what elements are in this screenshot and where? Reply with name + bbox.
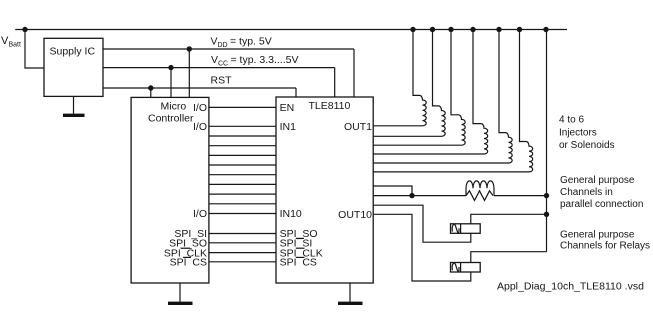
svg-text:Batt: Batt — [9, 42, 22, 49]
svg-text:SPI CS: SPI CS — [280, 257, 317, 269]
wire relay2 to battery — [471, 252, 547, 263]
svg-text:= typ. 3.3....5V: = typ. 3.3....5V — [231, 54, 299, 66]
svg-text:Micro: Micro — [161, 100, 187, 112]
note parallel channels — [560, 175, 643, 210]
junction rail tap 2 — [430, 27, 435, 32]
svg-text:General purpose: General purpose — [560, 229, 635, 240]
wire IN5 net — [209, 164, 276, 166]
junction rail tap 3 — [448, 27, 453, 32]
wire SPI_CS net — [209, 261, 276, 263]
wire SPI_SI net — [209, 233, 276, 235]
relay K2 coil — [451, 263, 481, 273]
TLE8110 U2 box — [276, 97, 373, 283]
wire supply ground lead — [73, 96, 75, 113]
wire IN8 net — [209, 193, 276, 195]
svg-text:OUT10: OUT10 — [338, 209, 372, 221]
junction relay1 battery — [544, 212, 549, 217]
wire VCC to micro top — [170, 68, 172, 98]
inductor L3 injector — [373, 30, 465, 146]
svg-text:I/O: I/O — [193, 208, 207, 220]
svg-text:Controller: Controller — [148, 113, 194, 125]
svg-text:CC: CC — [218, 61, 228, 68]
supply IC U1 box — [44, 38, 103, 96]
svg-text:IN1: IN1 — [280, 121, 297, 133]
micro controller label — [148, 100, 194, 124]
svg-text:IN10: IN10 — [280, 208, 302, 220]
wire IN2 net — [209, 135, 276, 137]
micro controller box — [131, 97, 209, 283]
label VCC value — [211, 54, 299, 68]
wire IN1 net — [209, 125, 276, 127]
svg-text:= typ. 5V: = typ. 5V — [230, 36, 272, 48]
junction rail tap 7 — [543, 27, 548, 32]
wire VDD to TLE top — [353, 49, 355, 97]
wire RST to TLE top — [295, 88, 297, 97]
relay K1 coil — [451, 224, 481, 234]
svg-text:or Solenoids: or Solenoids — [559, 140, 615, 151]
wire SPI_SO net — [209, 242, 276, 244]
wire OUT10 relay2 feed — [373, 214, 471, 281]
note relay channels — [560, 229, 650, 251]
svg-text:Supply IC: Supply IC — [50, 46, 96, 58]
svg-text:Appl_Diag_10ch_TLE8110 .vsd: Appl_Diag_10ch_TLE8110 .vsd — [497, 280, 644, 292]
inductor L1 injector — [373, 30, 426, 126]
ground micro — [168, 302, 193, 305]
inductor L2 injector — [373, 30, 445, 137]
svg-text:Channels in: Channels in — [560, 187, 613, 198]
svg-text:EN: EN — [280, 102, 295, 114]
svg-text:I/O: I/O — [193, 121, 207, 133]
junction VDD to micro — [187, 46, 192, 51]
svg-text:DD: DD — [218, 42, 228, 49]
svg-text:TLE8110: TLE8110 — [309, 100, 351, 112]
wire parallel channel B — [373, 195, 466, 197]
note injectors — [559, 115, 615, 152]
svg-text:RST: RST — [211, 75, 233, 87]
junction VCC to micro — [168, 65, 173, 70]
node VBatt label — [1, 35, 21, 49]
wire IN9 net — [209, 203, 276, 205]
wire load to battery — [494, 195, 547, 197]
ground supply — [63, 114, 85, 117]
inductor load L — [466, 181, 494, 196]
wire VDD net — [103, 48, 354, 50]
svg-text:Channels for Relays: Channels for Relays — [560, 241, 650, 252]
wire VDD to micro top — [188, 49, 190, 97]
svg-text:General purpose: General purpose — [560, 175, 635, 186]
wire parallel channel A — [373, 186, 412, 196]
inductor L6 injector — [373, 30, 533, 172]
wire VCC to TLE top — [334, 68, 336, 97]
wire EN net — [209, 106, 276, 108]
wire IN6 net — [209, 174, 276, 176]
svg-text:parallel connection: parallel connection — [560, 199, 643, 210]
wire IN4 net — [209, 154, 276, 156]
svg-text:SPI CS: SPI CS — [170, 257, 207, 269]
wire SPI_CLK net — [209, 252, 276, 254]
svg-text:OUT1: OUT1 — [344, 121, 372, 133]
wire micro ground lead — [179, 283, 181, 302]
wire TLE ground lead — [349, 283, 351, 302]
junction rail tap 6 — [517, 27, 522, 32]
wire IN3 net — [209, 145, 276, 147]
wire RST net — [103, 87, 296, 89]
svg-text:V: V — [211, 36, 218, 48]
wire IN10 net — [209, 213, 276, 215]
wire relay1 to battery — [471, 214, 547, 224]
junction rail tap 1 — [410, 27, 415, 32]
junction rail tap 4 — [470, 27, 475, 32]
wire RST to micro top — [150, 88, 152, 97]
svg-text:Injectors: Injectors — [559, 127, 597, 138]
wire battery feed right — [546, 30, 548, 252]
svg-text:V: V — [211, 54, 218, 66]
wire VCC net — [103, 67, 335, 69]
ground TLE — [338, 302, 363, 305]
label VDD value — [211, 36, 272, 50]
svg-text:4 to 6: 4 to 6 — [559, 115, 584, 126]
junction rail tap 5 — [496, 27, 501, 32]
junction parallel channels — [409, 193, 414, 198]
wire relay1 feed — [373, 205, 471, 242]
wire IN7 net — [209, 183, 276, 185]
wire VBatt top rail — [15, 29, 567, 31]
inductor L5 injector — [373, 30, 512, 164]
wire VBatt drop to Supply IC — [25, 30, 44, 69]
junction load battery — [544, 193, 549, 198]
resistor load R — [466, 191, 493, 201]
svg-text:I/O: I/O — [193, 102, 207, 114]
junction RST to micro — [148, 85, 153, 90]
junction VBatt — [22, 27, 27, 32]
inductor L4 injector — [373, 30, 487, 155]
